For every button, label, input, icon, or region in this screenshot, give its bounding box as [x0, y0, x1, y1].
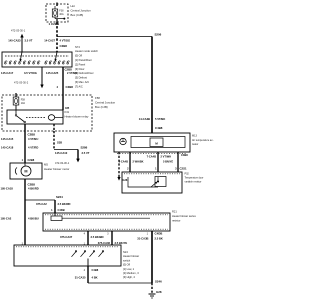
svg-text:C2B8: C2B8 [66, 85, 74, 89]
svg-text:4 VT/OG: 4 VT/OG [60, 39, 71, 43]
mode switch wiper arrow 1 [19, 52, 22, 62]
svg-text:4 BK: 4 BK [92, 276, 98, 280]
svg-text:3.5 BK/RD: 3.5 BK/RD [58, 202, 71, 206]
relay coil [48, 115, 54, 121]
svg-text:375-CA37: 375-CA37 [60, 235, 73, 239]
svg-text:Heater blower series: Heater blower series [172, 214, 196, 218]
mode switch wiper bus (dashed) [5, 55, 69, 57]
svg-text:Box (CJB): Box (CJB) [95, 105, 108, 109]
svg-text:C2B8: C2B8 [28, 183, 36, 187]
svg-text:M: M [155, 142, 158, 146]
motor symbol [15, 163, 31, 176]
svg-text:31-CA3B: 31-CA3B [137, 236, 148, 240]
svg-text:[3] High, 4: [3] High, 4 [123, 275, 135, 279]
ground symbol [149, 294, 156, 298]
svg-text:472-03-30-1: 472-03-30-1 [55, 161, 70, 165]
svg-text:Temperature door: Temperature door [185, 177, 204, 180]
svg-text:4 BK/BU: 4 BK/BU [28, 217, 39, 221]
heater blower relay K31 box [7, 110, 63, 124]
svg-text:145-CA10: 145-CA10 [55, 151, 68, 155]
svg-text:[6] Max. A/C: [6] Max. A/C [75, 80, 89, 84]
svg-text:N74: N74 [75, 45, 80, 49]
Central Junction Box dashed outline [2, 95, 92, 131]
svg-text:3.5 BK/BN: 3.5 BK/BN [91, 235, 104, 239]
resistor connector hatch top [45, 214, 168, 216]
wire 375-CA2 into resistor [54, 200, 56, 213]
svg-text:M5: M5 [44, 163, 48, 167]
mode switch contacts group 1 [5, 61, 41, 64]
heater mode switch N74 box [2, 52, 72, 67]
node S206 branch wire [57, 36, 152, 38]
svg-text:1 C2BB: 1 C2BB [49, 22, 61, 26]
heater blower switch box [14, 245, 121, 266]
svg-text:S28: S28 [57, 141, 62, 145]
mode switch legend N74 [75, 45, 98, 89]
svg-text:Hot: Hot [71, 4, 76, 8]
svg-text:M: M [24, 170, 27, 174]
ground bus wire [88, 282, 152, 284]
ground lead (dashed) [151, 283, 153, 294]
svg-text:375-CA36: 375-CA36 [98, 241, 111, 245]
svg-text:C4DB: C4DB [155, 232, 163, 236]
svg-text:145-CA33: 145-CA33 [8, 39, 21, 43]
svg-text:M13: M13 [192, 135, 197, 138]
wire to blower motor [24, 131, 26, 163]
wire 145-CA25 to CJB [62, 67, 64, 110]
heater blower motor M5 box [10, 163, 42, 179]
svg-text:Box (CJB): Box (CJB) [71, 13, 84, 17]
svg-text:C4B8: C4B8 [181, 153, 188, 157]
svg-text:Heater blower relay: Heater blower relay [65, 114, 89, 118]
actuator connector hatch [117, 153, 187, 155]
svg-text:3.5 BK/YE: 3.5 BK/YE [115, 241, 128, 245]
svg-text:2 WH/BK: 2 WH/BK [133, 160, 144, 164]
svg-text:4 VT/RD: 4 VT/RD [28, 146, 38, 150]
svg-text:Heater mode switch: Heater mode switch [75, 49, 98, 53]
svg-text:145-CA17: 145-CA17 [1, 71, 14, 75]
svg-text:tuator: tuator [192, 143, 199, 146]
wire 145-CA33 with up arrow [20, 34, 23, 52]
variable resistor hatch [124, 173, 180, 175]
switch contacts [72, 251, 104, 266]
motor ground wire [24, 179, 26, 245]
svg-text:2.5 BK: 2.5 BK [155, 237, 163, 241]
fuse F58 [13, 93, 19, 110]
svg-text:C4B8: C4B8 [92, 268, 99, 272]
resistor output wires [87, 231, 89, 245]
resistor element [51, 213, 150, 221]
heater blower series resistor R21 box [43, 213, 170, 231]
svg-text:S224: S224 [56, 195, 63, 199]
svg-text:5 VT/BK: 5 VT/BK [155, 117, 165, 121]
svg-text:5 BN/YE: 5 BN/YE [163, 160, 173, 164]
svg-text:C85: C85 [65, 108, 70, 110]
svg-text:G28: G28 [123, 179, 128, 182]
temperature door variable resistor box [122, 172, 182, 193]
svg-text:Heater blower: Heater blower [123, 254, 139, 258]
mode switch contacts group 2 [45, 61, 70, 64]
svg-text:C2B8: C2B8 [28, 133, 36, 137]
svg-text:[1] Low, 1: [1] Low, 1 [123, 267, 135, 271]
fuse F38 [52, 3, 65, 23]
svg-text:K31: K31 [65, 110, 70, 114]
svg-text:145-CA15: 145-CA15 [1, 137, 14, 141]
actuator inner module [131, 137, 185, 148]
svg-text:10A: 10A [21, 102, 26, 105]
svg-text:14-CA27: 14-CA27 [44, 39, 55, 43]
svg-text:[2] Panel: [2] Panel [75, 62, 86, 66]
svg-text:14-CA3B: 14-CA3B [139, 117, 150, 121]
svg-text:8-CA4B: 8-CA4B [119, 160, 128, 164]
svg-text:R21: R21 [172, 210, 177, 214]
actuator ground lead dashed with arrow [117, 152, 120, 181]
svg-text:3.5 VT: 3.5 VT [25, 39, 33, 43]
svg-text:switch: switch [123, 258, 131, 262]
relay internal dashed link [26, 117, 46, 119]
svg-text:Central Junction: Central Junction [71, 9, 92, 13]
svg-text:S286: S286 [81, 146, 88, 150]
svg-text:[2] Medium, 3: [2] Medium, 3 [123, 271, 139, 275]
svg-text:C2S1: C2S1 [180, 167, 187, 171]
svg-text:N24: N24 [123, 250, 128, 254]
fuse F38 dashed box (Central Junction Box top) [46, 4, 68, 22]
svg-text:C2B8: C2B8 [28, 158, 35, 162]
switch connector hatch [16, 246, 119, 248]
svg-text:375-CA2: 375-CA2 [36, 202, 47, 206]
svg-text:[1] Panel/Floor: [1] Panel/Floor [75, 58, 92, 62]
svg-text:[0] Off: [0] Off [123, 263, 130, 267]
svg-text:2 VT/BN: 2 VT/BN [67, 71, 77, 75]
svg-text:2 VT/WH: 2 VT/WH [161, 155, 172, 159]
svg-text:C2B8: C2B8 [60, 44, 68, 48]
relay output pin wires [24, 124, 26, 131]
svg-text:4 VT/BU: 4 VT/BU [28, 137, 38, 141]
svg-text:3.5 VT/OG: 3.5 VT/OG [24, 71, 37, 75]
svg-text:195-CA2: 195-CA2 [1, 217, 12, 221]
wire 145-CA10 with down arrow [76, 150, 80, 163]
resistor connector hatch bottom [45, 228, 168, 230]
svg-text:472-03-30-2: 472-03-30-2 [14, 81, 29, 85]
svg-text:[7] A/C: [7] A/C [75, 84, 83, 88]
svg-text:F58: F58 [95, 96, 100, 100]
actuator output wires [129, 152, 131, 172]
svg-text:[5] Defrost: [5] Defrost [75, 76, 87, 80]
variable resistor element [128, 177, 166, 188]
svg-text:7-CA4B: 7-CA4B [147, 155, 156, 159]
svg-text:P02: P02 [185, 173, 190, 176]
svg-text:4 BK/RD: 4 BK/RD [28, 187, 39, 191]
wire (right feed to actuator) [151, 37, 153, 134]
mode switch wiper arrow 2 [54, 52, 57, 62]
wire 14-CA27 (fuse output, dashed heavy) [56, 22, 58, 52]
svg-text:40A: 40A [59, 13, 64, 16]
svg-text:Central Junction: Central Junction [95, 100, 116, 104]
svg-text:G28: G28 [156, 290, 162, 294]
svg-text:S206: S206 [155, 33, 162, 37]
svg-text:145-CA25: 145-CA25 [46, 71, 59, 75]
svg-text:variable resistor: variable resistor [185, 181, 202, 184]
svg-text:[0] Off: [0] Off [75, 54, 82, 58]
svg-text:145-CA18: 145-CA18 [1, 146, 14, 150]
air temperature actuator M13 box [114, 133, 190, 152]
svg-text:472-03-30-1: 472-03-30-1 [11, 29, 26, 33]
svg-text:31-CA35: 31-CA35 [75, 276, 86, 280]
node S224 branch [25, 199, 55, 201]
svg-text:3.5 VT: 3.5 VT [82, 151, 90, 155]
relay coil link to pin [55, 117, 63, 119]
svg-text:resistor: resistor [172, 219, 181, 223]
svg-text:S246: S246 [155, 280, 162, 284]
svg-text:C4B8: C4B8 [155, 126, 163, 130]
actuator motor sub box [150, 138, 163, 147]
actuator position sensor circle [120, 138, 126, 144]
switch ground wire [87, 266, 89, 283]
svg-text:Heater blower motor: Heater blower motor [44, 167, 69, 171]
svg-text:[4] Defrost/Floor: [4] Defrost/Floor [75, 71, 94, 75]
svg-text:[3] Floor: [3] Floor [75, 67, 85, 71]
svg-text:195-CA18: 195-CA18 [1, 187, 14, 191]
svg-text:Air temperature ac-: Air temperature ac- [192, 139, 214, 142]
wire to off page S286 [54, 149, 78, 151]
wire 145-CA17 with down arrow (off page) [40, 67, 43, 88]
svg-text:C4DB: C4DB [58, 208, 65, 212]
switch legend N24 [123, 250, 139, 279]
relay coil ground branch (dashed) [53, 131, 55, 150]
relay contact [15, 110, 25, 123]
